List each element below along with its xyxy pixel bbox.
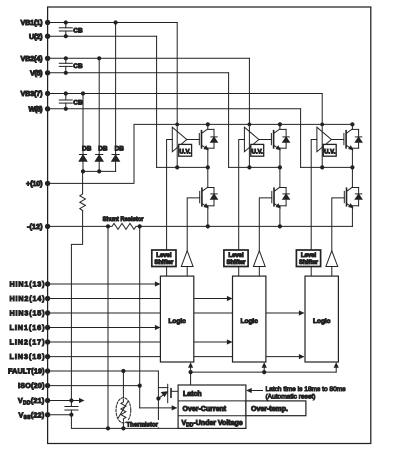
capacitor CB1	[59, 23, 72, 37]
node pin LIN3(18)	[45, 354, 50, 359]
wire DB anode rail	[81, 169, 116, 173]
diode D1L (low-side freewheel)	[208, 188, 218, 206]
op-amp high-side driver A2	[244, 127, 259, 152]
wire thermistor branch	[122, 371, 124, 428]
node pin FAULT(19)	[45, 368, 50, 373]
svg-text:Logic: Logic	[168, 318, 186, 325]
svg-text:Shifter: Shifter	[154, 260, 174, 266]
svg-text:U.V.: U.V.	[252, 150, 263, 156]
svg-text:LIN2(17): LIN2(17)	[10, 338, 46, 347]
wire Q2L emitter to - bus	[279, 206, 281, 227]
resistor R1 (VDD to bootstrap rail)	[80, 171, 86, 210]
wire - DC bus (pin 12) left segment	[48, 224, 111, 228]
wire VB2 bus	[48, 56, 250, 60]
wire level shifter 3 input from logic	[310, 267, 312, 277]
svg-text:Latch time is 18ms to 80ms: Latch time is 18ms to 80ms	[266, 386, 347, 393]
latch / over-current / under-voltage block	[178, 385, 246, 428]
svg-text:U.V.: U.V.	[180, 150, 191, 156]
node switch rail channel 2	[229, 73, 282, 170]
wire VB3 drop to driver	[320, 94, 324, 168]
transistor Q7 (fault output FET)	[168, 384, 178, 402]
wire ISO line	[48, 384, 142, 388]
svg-text:VDD(21): VDD(21)	[18, 396, 45, 407]
svg-text:W(8): W(8)	[29, 104, 44, 113]
node pin LIN2(17)	[45, 339, 50, 344]
wire + DC bus (pin 10)	[48, 124, 353, 183]
svg-text:U(2): U(2)	[29, 32, 43, 41]
svg-text:ISO(20): ISO(20)	[18, 381, 45, 390]
diode DB1	[79, 155, 87, 172]
svg-text:Level: Level	[156, 253, 172, 259]
capacitor CB3	[59, 94, 72, 109]
op-amp low-side driver B3	[326, 251, 338, 267]
wire driver B3 input from logic	[331, 267, 333, 277]
node pin VB2(4)	[45, 56, 50, 61]
wire VB1 drop to driver	[175, 23, 179, 168]
wire sense FET arrow	[158, 392, 167, 399]
resistor shunt	[108, 223, 140, 229]
svg-text:DB: DB	[115, 146, 125, 153]
wire Q1L gate feed	[187, 198, 200, 251]
op-amp low-side driver B2	[253, 251, 265, 267]
op-amp high-side driver A1	[172, 127, 187, 152]
svg-text:Over-temp.: Over-temp.	[251, 406, 288, 413]
diode D3L (low-side freewheel)	[352, 188, 362, 206]
wire FAULT to sense FET	[156, 371, 167, 428]
wire HIN2 input	[48, 296, 233, 301]
svg-text:Thermistor: Thermistor	[127, 422, 159, 429]
wire level shifter 1 output	[167, 140, 173, 251]
node pin HIN3(15)	[45, 310, 50, 315]
node pin W(8)	[45, 106, 50, 111]
wire VB1 bus	[48, 20, 178, 24]
wire VSS return bus	[71, 415, 178, 431]
wire level shifter 2 output	[239, 140, 245, 251]
svg-text:VB2(4): VB2(4)	[21, 54, 44, 63]
wire latch to logic feedback	[188, 362, 339, 385]
node pin HIN2(14)	[45, 296, 50, 301]
wire FAULT line	[48, 369, 159, 373]
svg-text:CB: CB	[73, 63, 83, 70]
wire LIN2 input	[48, 339, 233, 344]
wire Q1H emitter to switch rail	[207, 148, 209, 167]
wire Q3H emitter to switch rail	[351, 148, 353, 167]
svg-text:HIN2(14): HIN2(14)	[10, 294, 46, 303]
svg-text:HIN1(13): HIN1(13)	[10, 280, 46, 289]
transistor Q2L (low-side IGBT)	[272, 167, 280, 207]
svg-text:CB: CB	[73, 100, 83, 107]
node pin HIN1(13)	[45, 281, 50, 286]
node switch rail channel 3	[301, 109, 355, 170]
node pin LIN1(16)	[45, 325, 50, 330]
node pin V(5)	[45, 70, 50, 75]
svg-text:Over-Current: Over-Current	[183, 406, 227, 413]
svg-text:Shifter: Shifter	[226, 260, 246, 266]
svg-text:(Automatic reset): (Automatic reset)	[266, 394, 316, 401]
wire Q2L gate feed	[259, 198, 272, 251]
level shifter block LS1	[152, 250, 176, 267]
wire LIN3 input	[48, 354, 305, 359]
wire HIN3 input	[48, 310, 305, 315]
wire LIN1 input	[48, 325, 161, 330]
svg-text:U.V.: U.V.	[324, 150, 335, 156]
wire level shifter 1 input from logic	[166, 267, 168, 277]
svg-text:DB: DB	[98, 146, 108, 153]
wire HIN1 input	[48, 281, 161, 286]
node pin VSS(22)	[45, 412, 50, 417]
wire Q2H emitter to switch rail	[279, 148, 281, 167]
wire VB1 to DB3 cathode	[115, 23, 117, 155]
wire VB3 bus	[48, 91, 323, 95]
wire shunt left sense	[107, 226, 109, 428]
thermistor RT1	[116, 398, 131, 423]
node pin +(10)	[45, 181, 50, 186]
node pin VB1(1)	[45, 20, 50, 25]
level shifter block LS2	[224, 250, 248, 267]
logic block U3	[305, 276, 338, 362]
wire Q3L emitter to - bus	[351, 206, 353, 227]
capacitor CB2	[59, 58, 72, 73]
wire driver A3 output to gate	[331, 139, 344, 141]
op-amp low-side driver B1	[181, 251, 193, 267]
wire VB3 to DB1 cathode	[82, 94, 84, 155]
wire VB2 to DB2 cathode	[98, 58, 100, 154]
svg-text:LIN1(16): LIN1(16)	[10, 323, 46, 332]
over-temperature block	[246, 401, 306, 416]
transistor Q2H (high-side IGBT)	[271, 122, 282, 149]
svg-text:Level: Level	[301, 253, 317, 259]
svg-text:CB: CB	[73, 27, 83, 34]
wire - DC bus right segment	[138, 224, 353, 228]
svg-text:VB3(7): VB3(7)	[21, 89, 44, 98]
diode D2L (low-side freewheel)	[280, 188, 290, 206]
svg-text:Shifter: Shifter	[299, 260, 319, 266]
svg-text:FAULT(19): FAULT(19)	[8, 367, 45, 376]
wire W bus	[48, 107, 301, 111]
transistor Q1H (high-side IGBT)	[199, 122, 210, 149]
wire Q1L emitter to - bus	[207, 206, 209, 227]
node switch rail channel 1	[157, 36, 210, 169]
U.V. detector block UV1	[179, 144, 192, 156]
svg-text:Latch: Latch	[183, 391, 202, 398]
op-amp high-side driver A3	[317, 127, 332, 152]
transistor Q3H (high-side IGBT)	[344, 122, 355, 149]
node pin VB3(7)	[45, 91, 50, 96]
svg-text:+(10): +(10)	[26, 179, 43, 188]
wire resistor to VDD junction	[71, 211, 82, 401]
diode D3H (high-side freewheel)	[352, 129, 362, 148]
svg-text:Logic: Logic	[241, 318, 259, 325]
svg-text:V(5): V(5)	[30, 68, 43, 77]
svg-text:Level: Level	[228, 253, 244, 259]
svg-text:VSS(22): VSS(22)	[18, 410, 44, 421]
svg-text:Shunt Resistor: Shunt Resistor	[103, 216, 144, 223]
wire driver B1 input from logic	[186, 267, 188, 277]
U.V. detector block UV2	[251, 144, 264, 156]
wire driver A1 output to gate	[187, 139, 200, 141]
wire Q3L gate feed	[332, 198, 345, 251]
label Thermistor	[126, 420, 159, 429]
wire U bus	[48, 34, 157, 38]
wire shunt sense to over-current	[140, 226, 178, 410]
wire VB2 drop to driver	[248, 58, 252, 167]
logic block U2	[233, 276, 266, 362]
transistor Q1L (low-side IGBT)	[200, 167, 208, 207]
transistor Q3L (low-side IGBT)	[344, 167, 352, 207]
node pin -(12)	[45, 224, 50, 229]
logic block U1	[160, 276, 193, 362]
latch time annotation arrow	[246, 388, 262, 393]
wire V bus	[48, 71, 229, 75]
svg-text:VB1(1): VB1(1)	[21, 18, 44, 27]
capacitor C1 (VDD decoupling)	[65, 401, 78, 415]
level shifter block LS3	[296, 250, 320, 267]
svg-text:LIN3(18): LIN3(18)	[10, 352, 46, 361]
node pin U(2)	[45, 34, 50, 39]
wire level shifter 2 input from logic	[238, 267, 240, 277]
svg-text:DB: DB	[82, 146, 92, 153]
wire VSS line	[48, 413, 74, 417]
svg-text:-(12): -(12)	[27, 222, 43, 231]
diode DB2	[95, 155, 103, 172]
diode DB3	[112, 155, 120, 172]
wire VDD line with arrow	[48, 398, 85, 403]
diode D2H (high-side freewheel)	[280, 129, 290, 148]
wire driver B2 input from logic	[258, 267, 260, 277]
wire driver A2 output to gate	[259, 139, 272, 141]
svg-text:Logic: Logic	[313, 318, 331, 325]
node pin ISO(20)	[45, 383, 50, 388]
node pin VDD(21)	[45, 398, 50, 403]
module boundary box	[48, 7, 371, 444]
wire level shifter 3 output	[311, 140, 317, 251]
diode D1H (high-side freewheel)	[208, 129, 218, 148]
U.V. detector block UV3	[323, 144, 336, 156]
svg-text:HIN3(15): HIN3(15)	[10, 309, 46, 318]
